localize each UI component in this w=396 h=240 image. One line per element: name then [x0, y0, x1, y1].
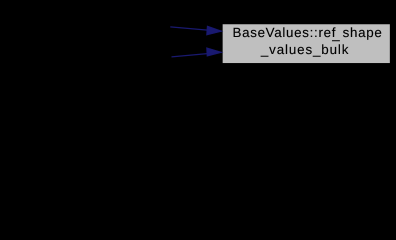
svg-text:BaseValues::ref_shape: BaseValues::ref_shape — [233, 25, 383, 42]
node Node1 box (current function, grey75 fill) — [222, 24, 390, 64]
svg-text:_values_bulk: _values_bulk — [260, 42, 349, 57]
caller graph: BaseValues::ref_shape_values_bulk — [0, 0, 396, 88]
arrowhead of edge 2 — [207, 48, 223, 57]
wire: edge 1 from hidden caller to Node1 — [170, 27, 207, 30]
wire: edge 2 from hidden caller to Node1 — [172, 54, 208, 57]
arrowhead of edge 1 — [207, 26, 223, 35]
